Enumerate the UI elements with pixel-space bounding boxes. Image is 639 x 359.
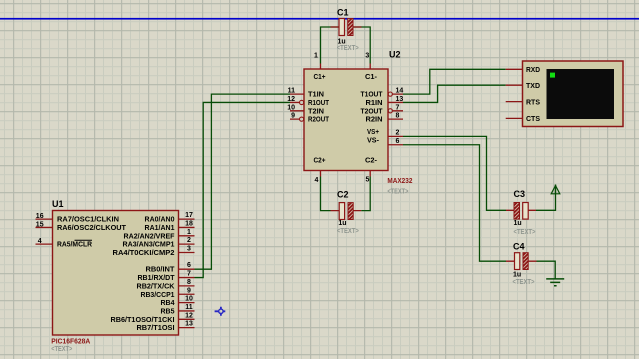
svg-text:RB1/RX/DT: RB1/RX/DT [138, 275, 176, 282]
wire U2 pin3 to C1 [353, 27, 370, 64]
U2 bottom pin stubs 4,5 [321, 171, 371, 177]
svg-text:1u: 1u [338, 220, 346, 227]
svg-text:U1: U1 [52, 199, 64, 209]
wire U2 pin4 to C2 [321, 177, 331, 211]
svg-text:9: 9 [187, 287, 191, 294]
svg-text:RB2/TX/CK: RB2/TX/CK [137, 283, 175, 290]
svg-text:C1: C1 [337, 8, 349, 18]
svg-text:T2OUT: T2OUT [361, 108, 384, 115]
svg-text:6: 6 [396, 138, 400, 145]
U2 top pin stubs 1,3 [321, 64, 371, 70]
svg-text:<TEXT>: <TEXT> [513, 279, 535, 286]
svg-text:C1-: C1- [365, 74, 378, 81]
svg-text:<TEXT>: <TEXT> [337, 228, 359, 235]
svg-text:RA2/AN2/VREF: RA2/AN2/VREF [124, 233, 176, 240]
svg-text:1: 1 [314, 53, 318, 60]
svg-text:T1IN: T1IN [308, 92, 324, 99]
wire pin6 U1 to T1IN U2 [195, 94, 291, 269]
svg-text:2: 2 [396, 129, 400, 136]
svg-text:RB4: RB4 [161, 300, 175, 307]
U2 right pin stubs 14,13,7,8,2,6 [388, 94, 403, 145]
svg-text:12: 12 [287, 96, 295, 103]
svg-text:<TEXT>: <TEXT> [337, 45, 359, 52]
svg-text:13: 13 [185, 321, 193, 328]
U1 left pin stubs 16,15,4 [36, 219, 53, 244]
svg-text:RA4/T0CKI/CMP2: RA4/T0CKI/CMP2 [113, 250, 175, 257]
U1 right pin stubs [179, 219, 195, 328]
svg-text:7: 7 [187, 271, 191, 278]
svg-text:8: 8 [396, 113, 400, 120]
svg-text:RA1/AN1: RA1/AN1 [145, 225, 175, 232]
capacitor C4 [506, 241, 537, 285]
svg-text:<TEXT>: <TEXT> [514, 229, 536, 236]
svg-text:6: 6 [187, 262, 191, 269]
svg-text:RA7/OSC1/CLKIN: RA7/OSC1/CLKIN [57, 217, 119, 224]
svg-text:10: 10 [287, 104, 295, 111]
svg-text:1u: 1u [513, 272, 521, 279]
wire VS- U2 to C4 [403, 145, 506, 261]
svg-text:C2+: C2+ [314, 157, 326, 164]
IC U1 PIC16F628A [36, 199, 195, 353]
svg-text:9: 9 [291, 113, 295, 120]
svg-text:RA5/MCLR: RA5/MCLR [57, 242, 92, 249]
U2 pin 7 bubble [388, 109, 392, 113]
svg-text:U2: U2 [389, 50, 401, 60]
svg-text:RB5: RB5 [161, 308, 175, 315]
svg-text:T2IN: T2IN [308, 108, 324, 115]
svg-text:RA3/AN3/CMP1: RA3/AN3/CMP1 [123, 242, 175, 249]
svg-text:13: 13 [396, 96, 404, 103]
svg-text:RB0/INT: RB0/INT [146, 267, 176, 274]
svg-text:8: 8 [187, 279, 191, 286]
svg-text:T1OUT: T1OUT [361, 92, 384, 99]
svg-text:16: 16 [36, 213, 44, 220]
svg-text:VS-: VS- [367, 138, 380, 145]
svg-text:C4: C4 [513, 241, 525, 251]
svg-text:R1OUT: R1OUT [308, 100, 330, 107]
svg-text:R1IN: R1IN [366, 100, 383, 107]
svg-text:R2OUT: R2OUT [308, 117, 330, 124]
U2 pin 9 bubble [300, 117, 304, 121]
svg-text:RA0/AN0: RA0/AN0 [145, 217, 175, 224]
svg-text:12: 12 [185, 312, 193, 319]
svg-text:<TEXT>: <TEXT> [387, 189, 408, 196]
wire U2 pin5 to C2 [361, 177, 370, 211]
svg-text:10: 10 [185, 296, 193, 303]
IC U2 MAX232 [287, 50, 412, 196]
svg-text:C2-: C2- [365, 157, 378, 164]
wire U2 pin1 to C1 [321, 27, 340, 64]
svg-text:3: 3 [187, 246, 191, 253]
svg-text:RB6/T1OSO/T1CKI: RB6/T1OSO/T1CKI [111, 317, 175, 324]
svg-text:MAX232: MAX232 [387, 178, 412, 185]
svg-text:1: 1 [187, 229, 191, 236]
terminal pin stubs [506, 69, 523, 118]
wire T1OUT U2 to RXD terminal [403, 69, 506, 94]
svg-text:RB3/CCP1: RB3/CCP1 [141, 292, 175, 299]
ground symbol [546, 279, 564, 286]
wire C4 to ground [537, 261, 556, 279]
wire VS+ U2 to C3 [403, 136, 506, 210]
svg-text:RXD: RXD [526, 67, 540, 74]
svg-text:15: 15 [36, 221, 44, 228]
svg-text:R2IN: R2IN [366, 117, 383, 124]
U2 pin 14 bubble [388, 92, 392, 96]
power symbol [551, 185, 560, 194]
svg-text:14: 14 [396, 88, 404, 95]
svg-text:11: 11 [185, 304, 193, 311]
capacitor C2 [331, 189, 362, 235]
wire pin7 U1 to R1OUT U2 [195, 102, 291, 277]
virtual terminal [506, 61, 623, 127]
svg-text:C3: C3 [514, 189, 526, 199]
svg-text:TXD: TXD [526, 83, 540, 90]
U2 pin 12 bubble [300, 100, 304, 104]
capacitor C1 [331, 8, 362, 53]
svg-text:11: 11 [288, 88, 296, 95]
svg-text:C1+: C1+ [314, 74, 326, 81]
svg-text:PIC16F628A: PIC16F628A [51, 339, 90, 346]
svg-text:RTS: RTS [526, 99, 540, 106]
origin marker [215, 307, 226, 316]
svg-text:2: 2 [187, 237, 191, 244]
sheet border line [0, 18, 639, 20]
svg-text:18: 18 [185, 220, 193, 227]
svg-text:3: 3 [365, 53, 369, 60]
wire R1IN U2 to TXD terminal [403, 85, 506, 102]
svg-text:4: 4 [38, 238, 42, 245]
U2 left pin stubs 11,12,10,9 [290, 94, 304, 119]
svg-text:5: 5 [366, 177, 370, 184]
svg-text:VS+: VS+ [367, 129, 379, 136]
capacitor C3 [506, 189, 536, 236]
svg-text:1u: 1u [514, 220, 522, 227]
svg-text:17: 17 [185, 212, 193, 219]
svg-text:CTS: CTS [526, 116, 540, 123]
svg-text:4: 4 [315, 177, 319, 184]
svg-text:7: 7 [396, 104, 400, 111]
svg-text:RA6/OSC2/CLKOUT: RA6/OSC2/CLKOUT [57, 225, 127, 232]
wire C3 to power [536, 185, 556, 211]
svg-text:RB7/T1OSI: RB7/T1OSI [137, 325, 175, 332]
svg-text:<TEXT>: <TEXT> [51, 346, 72, 353]
svg-text:C2: C2 [337, 189, 349, 199]
